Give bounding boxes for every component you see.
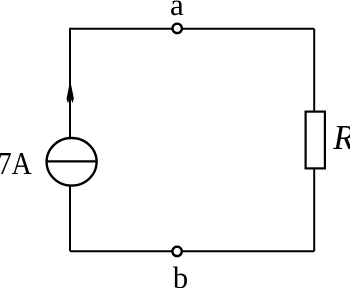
svg-text:7A: 7A [0,146,32,181]
current direction arrow [67,82,74,103]
wire right [313,29,315,251]
wire left upper [69,28,71,140]
node a terminal [173,24,182,33]
wire left lower [69,185,71,251]
current source I1 bar [47,160,96,162]
svg-text:b: b [173,261,188,288]
svg-text:a: a [170,0,184,22]
current source I1 circle [47,138,97,186]
svg-text:R: R [332,119,350,157]
wire top [70,28,314,30]
wire bottom [70,250,314,252]
resistor R body [306,112,325,169]
node b terminal [172,247,181,256]
